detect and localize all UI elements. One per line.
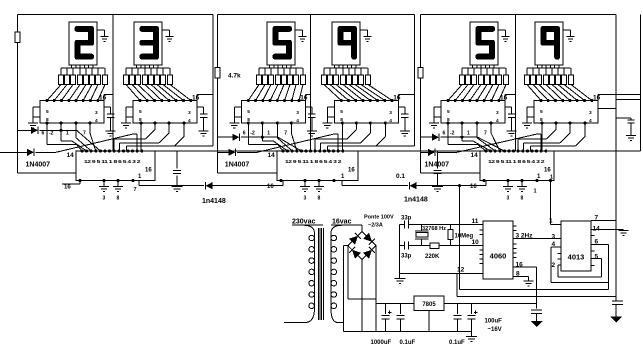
pin 1 label seconds counter corner bbox=[550, 175, 553, 181]
wire regulator gnd pin bbox=[428, 311, 430, 332]
svg-text:16: 16 bbox=[516, 261, 524, 268]
wire U5 out b bbox=[462, 123, 491, 151]
node output pins U2 bbox=[139, 121, 185, 124]
segment resistors R2a-R2h bbox=[124, 75, 173, 85]
svg-text:11: 11 bbox=[472, 218, 479, 225]
svg-text:16: 16 bbox=[544, 168, 551, 174]
diode D4 1N4007 bbox=[218, 134, 339, 156]
label 1n4148 a bbox=[202, 198, 226, 205]
wire 230vac bbox=[292, 224, 323, 226]
wire top rail block 1 bbox=[17, 14, 213, 16]
wire regulator output bbox=[444, 302, 537, 304]
ground at DISP6 bbox=[563, 30, 575, 41]
svg-text:5: 5 bbox=[540, 109, 543, 115]
svg-text:1: 1 bbox=[267, 131, 270, 137]
label 0.1uF b bbox=[449, 340, 465, 346]
label 0.1uF a bbox=[400, 340, 416, 346]
capacitor C22 bbox=[612, 296, 623, 316]
pin 5 label bbox=[595, 254, 599, 261]
svg-text:7: 7 bbox=[284, 131, 287, 137]
segment resistors R3a-R3h bbox=[257, 75, 306, 85]
pin labels under U1 bbox=[42, 131, 87, 137]
svg-text:3: 3 bbox=[304, 196, 307, 202]
counter IC U9 (4518) bbox=[480, 151, 554, 181]
wire U3 out d bbox=[291, 123, 297, 151]
wire display 1 pins bbox=[72, 65, 94, 68]
label 16vac bbox=[332, 219, 352, 226]
svg-text:4: 4 bbox=[188, 118, 191, 124]
wire bridge minus bbox=[348, 246, 376, 299]
wire carry hours bbox=[139, 181, 204, 186]
svg-text:3: 3 bbox=[389, 110, 392, 116]
svg-text:1: 1 bbox=[66, 131, 69, 137]
pin row labels U7 bbox=[84, 159, 141, 164]
wire U3 out c bbox=[277, 123, 292, 151]
node output pins U1 bbox=[45, 121, 91, 124]
wire resistor leads 6 bbox=[527, 68, 571, 75]
pin labels under U5 bbox=[443, 131, 488, 137]
bridge diode c bbox=[349, 247, 361, 259]
pin labels U5 bbox=[447, 109, 499, 124]
wire divider block 3 bbox=[515, 15, 517, 151]
svg-text:12 9 5 11 1 8 6 5 4 3 2: 12 9 5 11 1 8 6 5 4 3 2 bbox=[84, 159, 141, 164]
svg-text:Ponte 100V: Ponte 100V bbox=[364, 215, 394, 221]
wire resistor leads 4 bbox=[324, 68, 368, 75]
wire pin12 rail bbox=[400, 267, 483, 274]
svg-text:4.7k: 4.7k bbox=[228, 73, 241, 80]
svg-text:14: 14 bbox=[268, 152, 276, 159]
ground at DISP5 bbox=[498, 30, 510, 41]
label Ponte 100V bbox=[364, 215, 394, 229]
wire U6 out d bbox=[530, 123, 585, 151]
svg-text:16: 16 bbox=[393, 95, 401, 102]
wire rail seconds-right bbox=[554, 150, 640, 152]
svg-text:16: 16 bbox=[470, 184, 477, 190]
wire divider block 2 bbox=[310, 15, 312, 151]
label 220K bbox=[425, 254, 440, 260]
pin row labels U8 bbox=[285, 159, 342, 164]
regulator U12 7805 bbox=[414, 296, 444, 311]
svg-text:7: 7 bbox=[484, 131, 487, 137]
svg-text:0.1uF: 0.1uF bbox=[449, 340, 465, 346]
svg-text:-2: -2 bbox=[49, 131, 54, 137]
resistor 4.7k block 1 bbox=[15, 32, 20, 43]
svg-text:5: 5 bbox=[340, 109, 343, 115]
wire rail minutes-seconds bbox=[358, 150, 480, 152]
IC U11 4013 bbox=[561, 221, 591, 271]
pin 7 wire U11 bbox=[591, 215, 616, 222]
pin 1 label U8 bbox=[341, 174, 345, 180]
pin 7 label hours counter bbox=[134, 187, 137, 193]
wire distribution 3 bbox=[259, 67, 303, 69]
svg-text:3: 3 bbox=[296, 110, 299, 116]
driver IC U6 (4511) bbox=[534, 101, 598, 124]
svg-text:1: 1 bbox=[549, 218, 553, 225]
svg-text:4: 4 bbox=[95, 118, 98, 124]
svg-text:1: 1 bbox=[534, 189, 537, 195]
pin 16 label U1 bbox=[99, 95, 107, 102]
pin labels under U9 bbox=[507, 196, 524, 202]
wire display 4 pins bbox=[335, 65, 357, 68]
7-segment digit 5 of DISP3 bbox=[273, 26, 293, 60]
wire loop pin6-pin4 bbox=[551, 245, 609, 283]
ground at supply bbox=[466, 331, 477, 341]
svg-text:16: 16 bbox=[267, 184, 274, 190]
capacitor C18 100uF bbox=[468, 303, 478, 331]
pin 16 label U6 bbox=[593, 95, 601, 102]
label 32768 Hz bbox=[422, 226, 446, 232]
wire U2 out a bbox=[140, 123, 142, 151]
pin labels under U7 bbox=[103, 196, 120, 202]
pin 16 label U7 right bbox=[145, 168, 152, 174]
diode D8 1n4148 bbox=[410, 182, 417, 189]
ground at C5 bbox=[507, 131, 517, 136]
diode D7 1n4148 bbox=[206, 182, 213, 189]
wire Vdd 6 bbox=[598, 95, 616, 101]
svg-text:33p: 33p bbox=[401, 254, 412, 260]
wire 16vac bbox=[331, 225, 362, 232]
node output pins U3 bbox=[247, 121, 293, 124]
wire resistor leads 2 bbox=[126, 68, 170, 75]
wire latch bracket U6 bbox=[527, 107, 534, 117]
wire U1 out c bbox=[76, 123, 91, 151]
wire U6 out c bbox=[524, 123, 571, 151]
resistor 4.7k block 3 bbox=[418, 68, 423, 79]
node output pins U4 bbox=[341, 121, 387, 124]
capacitor C4 bbox=[398, 107, 408, 131]
ground at C22 bbox=[610, 317, 622, 323]
capacitor C5 bbox=[505, 107, 515, 131]
wire U2 out b bbox=[114, 123, 155, 151]
svg-text:1N4007: 1N4007 bbox=[225, 162, 250, 169]
ground at U7 a bbox=[99, 181, 109, 192]
wire latch bracket U5 bbox=[434, 107, 441, 117]
pin labels U4 bbox=[340, 109, 392, 124]
wire U6 out b bbox=[518, 123, 556, 151]
wire vdd to right edge bbox=[616, 95, 640, 100]
wire right vertical block 1 bbox=[155, 15, 213, 147]
svg-text:3: 3 bbox=[103, 196, 106, 202]
wire segment fan 1 bbox=[47, 85, 105, 101]
resistor R19 220K bbox=[430, 243, 439, 248]
label 1N4007 block 2 bbox=[225, 162, 250, 169]
pin labels U6 bbox=[540, 109, 592, 124]
label 33p b bbox=[401, 254, 412, 260]
wire divider block 1 bbox=[112, 15, 114, 151]
svg-text:~16V: ~16V bbox=[488, 327, 502, 333]
wire U4 out d bbox=[327, 123, 385, 151]
ground at U2 left bbox=[121, 117, 131, 128]
wire pin11 rail bbox=[415, 224, 483, 226]
svg-text:1n4148: 1n4148 bbox=[404, 197, 428, 204]
svg-text:8: 8 bbox=[516, 271, 520, 278]
segment resistors R1a-R1h bbox=[59, 75, 108, 85]
capacitor C20 33p bbox=[400, 242, 430, 250]
svg-text:12: 12 bbox=[457, 267, 465, 274]
wire top rail block 3 bbox=[421, 14, 617, 16]
wire regulator input bbox=[376, 302, 414, 304]
wire right edge vertical bbox=[639, 15, 641, 151]
wire segment fan 5 bbox=[448, 85, 506, 101]
diode D6 1N4007 bbox=[421, 134, 542, 156]
capacitor C6 bbox=[598, 108, 635, 135]
ground at oscillator bbox=[395, 279, 406, 284]
svg-text:1n4148: 1n4148 bbox=[202, 198, 226, 205]
wire U3 out a bbox=[248, 123, 283, 151]
svg-text:10: 10 bbox=[472, 239, 480, 246]
pin 1 label seconds counter bottom bbox=[534, 189, 537, 195]
svg-text:1000uF: 1000uF bbox=[371, 340, 392, 346]
wire bottom rail 1 bbox=[460, 283, 609, 290]
node counter bottom pins U9 bbox=[482, 179, 538, 182]
ground at U9 a bbox=[503, 181, 513, 192]
wire right vertical block 2 bbox=[358, 15, 414, 147]
wire distribution 2 bbox=[126, 67, 170, 69]
label 10Meg bbox=[455, 234, 474, 240]
wire ground rail bbox=[344, 330, 472, 332]
pin 1 label U9 bbox=[537, 174, 541, 180]
ground at DISP3 bbox=[295, 30, 307, 41]
ground at C6 bbox=[626, 136, 636, 141]
pin 1 label U7 bbox=[138, 174, 142, 180]
pin ticks U11 bbox=[558, 236, 595, 266]
ground at C14 bbox=[432, 187, 443, 192]
label 1N4007 block 1 bbox=[26, 162, 51, 169]
capacitor C15 1000uF bbox=[382, 303, 392, 331]
wire latch bracket U4 bbox=[327, 107, 334, 117]
pin labels under U8 bbox=[304, 196, 321, 202]
IC U10 4060 bbox=[483, 221, 513, 279]
capacitor C3 bbox=[305, 107, 315, 131]
wire left vertical block 1 bbox=[17, 15, 76, 173]
pin 14 wire U11 bbox=[591, 225, 624, 232]
driver IC U5 (4511) bbox=[441, 101, 505, 124]
label 1N4007 block 3 bbox=[425, 162, 450, 169]
svg-text:4: 4 bbox=[296, 118, 299, 124]
svg-text:1N4007: 1N4007 bbox=[425, 162, 450, 169]
bridge rectifier BR1 frame bbox=[348, 232, 376, 260]
wire Vdd 1 bbox=[104, 95, 113, 101]
node output pins U5 bbox=[446, 121, 492, 124]
ground at C4 bbox=[400, 131, 410, 136]
wire latch bracket U1 bbox=[33, 107, 40, 117]
svg-text:5: 5 bbox=[595, 254, 599, 261]
wire Vdd 3 bbox=[305, 95, 310, 101]
svg-text:-2: -2 bbox=[450, 131, 455, 137]
wire display 3 pins bbox=[270, 65, 292, 68]
svg-text:4013: 4013 bbox=[568, 253, 585, 262]
svg-text:5: 5 bbox=[46, 109, 49, 115]
wire 2Hz bbox=[513, 238, 561, 240]
svg-text:12 9 5 11 1 8 6 5 4 3 2: 12 9 5 11 1 8 6 5 4 3 2 bbox=[488, 159, 545, 164]
wire osc ground vertical bbox=[399, 225, 401, 279]
pin 16 label minutes counter bbox=[267, 184, 274, 190]
counter IC U7 (4518) bbox=[76, 151, 155, 181]
wire U4 out c bbox=[321, 123, 371, 151]
ground at U4 left bbox=[322, 117, 332, 128]
ground at U7 b bbox=[113, 181, 123, 192]
ground at U11 pin14 bbox=[619, 231, 629, 236]
pin 16 label U3 bbox=[300, 95, 308, 102]
diode D5 1N4007 bbox=[421, 134, 505, 151]
wire distribution 4 bbox=[324, 67, 368, 69]
pin 16 label seconds counter bbox=[470, 184, 477, 190]
wire bridge plus bbox=[375, 246, 377, 332]
svg-text:6: 6 bbox=[243, 131, 246, 137]
svg-text:~2/3A: ~2/3A bbox=[368, 223, 383, 229]
label 0.1 bbox=[396, 173, 405, 180]
svg-text:5: 5 bbox=[447, 109, 450, 115]
diode D1 1N4007 bbox=[17, 127, 100, 151]
pin 16 label U2 bbox=[192, 95, 200, 102]
node bus dots U3 bbox=[247, 99, 301, 102]
pin 16 label U8 right bbox=[348, 168, 355, 174]
svg-text:6: 6 bbox=[42, 131, 45, 137]
pin 16 label U5 bbox=[500, 95, 508, 102]
transformer T1 core bbox=[318, 228, 323, 320]
capacitor C14 0.1uF bbox=[434, 151, 442, 187]
svg-text:14: 14 bbox=[593, 225, 601, 232]
wire resistor leads 3 bbox=[259, 68, 303, 75]
wire Vdd 2 bbox=[197, 95, 213, 101]
svg-text:16vac: 16vac bbox=[332, 219, 352, 226]
wire distribution 6 bbox=[527, 67, 571, 69]
wire latch bracket U2 bbox=[126, 107, 133, 117]
svg-text:12 9 5 11 1 8 6 5 4 3 2: 12 9 5 11 1 8 6 5 4 3 2 bbox=[285, 159, 342, 164]
svg-text:7: 7 bbox=[83, 131, 86, 137]
display DISP6 box bbox=[535, 22, 563, 65]
svg-text:-2: -2 bbox=[250, 131, 255, 137]
ground at C2 bbox=[199, 131, 209, 136]
wire pin16 stub hours bbox=[62, 181, 80, 191]
svg-text:1: 1 bbox=[467, 131, 470, 137]
wire segment fan 3 bbox=[248, 85, 303, 101]
capacitor C2 bbox=[197, 107, 207, 131]
resistor 4.7k block 2 bbox=[215, 68, 220, 79]
ground at U5 left bbox=[429, 117, 439, 128]
pin ticks U10 bbox=[480, 226, 517, 264]
label 100uF bbox=[485, 319, 503, 334]
node bus dots U4 bbox=[340, 99, 394, 102]
pin 14 label U9 bbox=[471, 152, 479, 159]
wire pin8 gnd bbox=[513, 271, 529, 282]
crystal X1 32768Hz bbox=[415, 225, 429, 246]
label 4.7k bbox=[228, 73, 241, 80]
label pin 10 bbox=[472, 239, 480, 246]
wire loop pin5-pin2 bbox=[558, 259, 602, 277]
segment resistors R5a-R5h bbox=[460, 75, 509, 85]
7-segment digit 3 of DISP2 bbox=[140, 26, 160, 60]
ground at DISP2 bbox=[162, 30, 174, 41]
label 3 2Hz bbox=[516, 233, 534, 240]
node counter input dots U7 bbox=[80, 149, 143, 152]
wire mains input bbox=[284, 322, 305, 324]
segment resistors R4a-R4h bbox=[322, 75, 371, 85]
node bus dots U5 bbox=[446, 99, 500, 102]
svg-text:7: 7 bbox=[134, 187, 137, 193]
svg-text:14: 14 bbox=[67, 152, 75, 159]
svg-text:220K: 220K bbox=[425, 254, 440, 260]
7-segment digit 9 of DISP6 bbox=[541, 26, 561, 60]
node bus dots U2 bbox=[138, 99, 192, 102]
ground at U9 b bbox=[517, 181, 527, 192]
wire bottom rail 2 bbox=[457, 295, 616, 297]
wire left vertical block 3 bbox=[421, 15, 481, 173]
wire U5 out d bbox=[491, 123, 500, 151]
ground at U10 pin8 bbox=[524, 281, 534, 286]
wire display 2 pins bbox=[137, 65, 159, 68]
wire seconds to 4013 bbox=[549, 179, 561, 224]
pin labels U3 bbox=[247, 109, 299, 124]
svg-text:32768 Hz: 32768 Hz bbox=[422, 226, 446, 232]
wire segment fan 2 bbox=[126, 85, 191, 101]
label 33p a bbox=[401, 215, 412, 221]
svg-text:3: 3 bbox=[496, 110, 499, 116]
wire supply vertical right bbox=[615, 15, 617, 300]
svg-text:7: 7 bbox=[595, 215, 599, 222]
svg-text:4: 4 bbox=[589, 118, 592, 124]
wire U2 out c bbox=[120, 123, 170, 151]
wire distribution 1 bbox=[61, 67, 105, 69]
ground at U1 left bbox=[28, 117, 38, 128]
ground at U6 left bbox=[522, 117, 532, 128]
segment resistors R6a-R6h bbox=[525, 75, 574, 85]
svg-text:230vac: 230vac bbox=[292, 219, 315, 226]
pin row labels U9 bbox=[488, 159, 545, 164]
transformer T1 primary winding bbox=[303, 225, 314, 322]
node counter input dots U9 bbox=[484, 149, 547, 152]
svg-text:14: 14 bbox=[471, 152, 479, 159]
node output pins U6 bbox=[540, 121, 586, 124]
pin 16 label U4 bbox=[393, 95, 401, 102]
label 230vac bbox=[292, 219, 315, 226]
svg-text:1N4007: 1N4007 bbox=[26, 162, 51, 169]
svg-text:0.1uF: 0.1uF bbox=[400, 340, 416, 346]
driver IC U3 (4511) bbox=[241, 101, 305, 124]
node bus dots U1 bbox=[45, 99, 99, 102]
svg-text:5: 5 bbox=[247, 109, 250, 115]
svg-text:16: 16 bbox=[500, 95, 508, 102]
ground at C1 bbox=[106, 131, 116, 136]
svg-text:4060: 4060 bbox=[490, 252, 507, 261]
wire latch bracket U3 bbox=[234, 107, 241, 117]
label 1n4148 b bbox=[404, 197, 428, 204]
driver IC U4 (4511) bbox=[334, 101, 398, 124]
diode D2 1N4007 bbox=[0, 134, 137, 156]
wire U6 out a bbox=[541, 123, 543, 151]
node bus dots U6 bbox=[539, 99, 593, 102]
svg-text:0.1: 0.1 bbox=[396, 173, 405, 180]
svg-text:4: 4 bbox=[389, 118, 392, 124]
svg-text:2: 2 bbox=[552, 262, 556, 269]
wire carry to seconds bbox=[417, 181, 487, 186]
pin 14 label U7 bbox=[67, 152, 75, 159]
bridge diode b bbox=[363, 233, 375, 245]
node counter bottom pins U7 bbox=[78, 179, 134, 182]
pin 1 label wire bbox=[549, 218, 553, 225]
display DISP3 box bbox=[267, 22, 295, 65]
wire U1 out b bbox=[61, 123, 87, 151]
wire top rail block 2 bbox=[218, 14, 415, 16]
node counter input dots U8 bbox=[281, 149, 344, 152]
wire U2 out d bbox=[126, 123, 184, 151]
wire Vdd 5 bbox=[505, 95, 516, 101]
7-segment digit 2 of DISP1 bbox=[75, 26, 95, 60]
ground at C3 bbox=[307, 131, 317, 136]
svg-text:8: 8 bbox=[117, 196, 120, 202]
wire U3 out b bbox=[262, 123, 287, 151]
pin labels under U3 bbox=[243, 131, 287, 137]
